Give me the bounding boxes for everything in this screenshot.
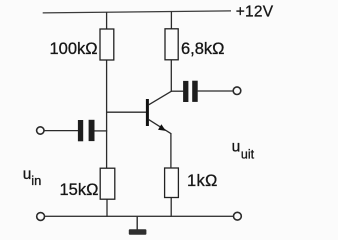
svg-text:6,8kΩ: 6,8kΩ	[181, 40, 225, 58]
svg-text:1kΩ: 1kΩ	[187, 172, 218, 190]
svg-text:uit: uit	[241, 148, 255, 162]
svg-text:15kΩ: 15kΩ	[60, 181, 99, 199]
svg-text:100kΩ: 100kΩ	[50, 40, 98, 58]
svg-text:in: in	[31, 173, 41, 188]
svg-text:u: u	[232, 138, 241, 155]
svg-text:+12V: +12V	[236, 3, 274, 20]
svg-text:u: u	[23, 166, 32, 183]
